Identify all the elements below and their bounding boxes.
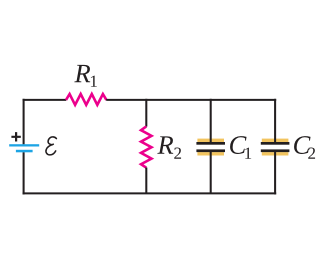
wire right branch upper <box>274 99 276 144</box>
label C1 letter <box>230 136 246 154</box>
wire left upper (to battery) <box>23 99 25 145</box>
label R2 letter <box>157 136 173 153</box>
capacitor C2 bottom plate highlight <box>262 152 289 155</box>
wire top right segment <box>106 99 276 101</box>
capacitor C2 top plate <box>261 142 290 145</box>
label R1 subscript <box>91 76 97 87</box>
capacitor C2 bottom plate <box>261 149 290 152</box>
wire C1 branch upper <box>210 99 212 144</box>
label R2 subscript <box>174 148 181 159</box>
label C1 subscript <box>245 148 251 159</box>
wire C1 branch lower <box>210 151 212 193</box>
label C2 subscript <box>308 148 315 159</box>
label R1 letter <box>74 65 90 82</box>
wire top left segment <box>23 99 67 101</box>
battery EMF negative plate <box>16 150 33 153</box>
wire R2 branch lower <box>145 168 147 194</box>
wire bottom <box>23 192 277 194</box>
wire R2 branch upper <box>145 99 147 127</box>
capacitor C1 top plate <box>196 142 225 145</box>
resistor R1 <box>66 94 106 105</box>
capacitor C2 top plate highlight <box>262 139 289 142</box>
capacitor C1 bottom plate <box>196 149 225 152</box>
battery EMF positive plate <box>9 144 39 146</box>
capacitor C1 top plate highlight <box>197 139 224 142</box>
label C2 letter <box>294 136 310 154</box>
wire left lower (from battery) <box>23 152 25 194</box>
EMF script E label <box>46 137 56 155</box>
wire right branch lower <box>274 151 276 195</box>
capacitor C1 bottom plate highlight <box>197 152 224 155</box>
battery plus sign <box>11 132 20 141</box>
resistor R2 <box>141 126 152 167</box>
